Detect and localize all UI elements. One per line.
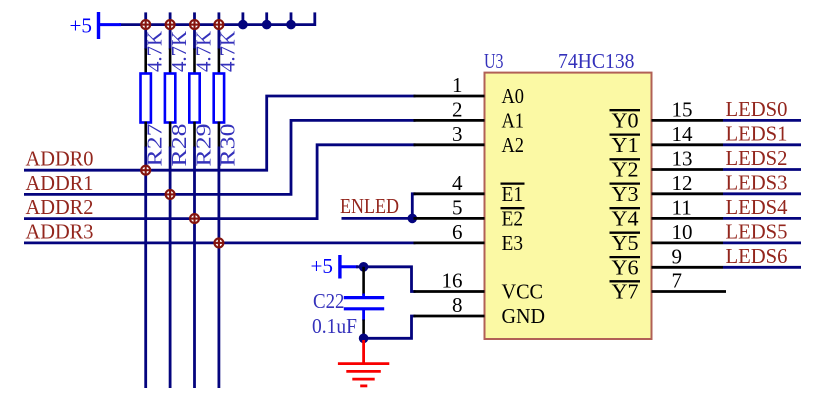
wire LEDS0 bbox=[723, 119, 801, 122]
svg-text:LEDS0: LEDS0 bbox=[726, 97, 788, 121]
pin 14 number bbox=[672, 122, 694, 146]
svg-text:12: 12 bbox=[672, 171, 693, 195]
svg-text:5: 5 bbox=[452, 195, 463, 219]
svg-text:15: 15 bbox=[672, 97, 693, 121]
resistor R28 pin bottom bbox=[169, 122, 172, 148]
svg-text:LEDS1: LEDS1 bbox=[726, 121, 788, 145]
junction marker rail / R29 bbox=[190, 20, 200, 30]
resistor R28 body bbox=[165, 74, 175, 123]
pin 8 wire (left) bbox=[414, 315, 485, 318]
wire LEDS6 bbox=[723, 266, 801, 269]
resistor R27 pin bottom bbox=[144, 122, 147, 148]
pin 9 number bbox=[672, 244, 683, 268]
power symbol +5 (capacitor) bbox=[311, 254, 359, 278]
wire stub and junction dot on rail x=266.7 bbox=[262, 12, 272, 29]
pin 11 wire (right) bbox=[652, 217, 724, 220]
pin 6 number bbox=[452, 220, 463, 244]
pin name Y0 with overline bbox=[610, 109, 641, 133]
junction dot ENLED bbox=[408, 214, 418, 224]
pin 4 wire (left) bbox=[414, 192, 485, 195]
wire stub and junction dot on rail x=291.0 bbox=[286, 12, 296, 29]
ground symbol bbox=[338, 340, 389, 386]
pin name GND bbox=[502, 304, 546, 328]
wire capacitor bottom to GND pin bbox=[364, 316, 416, 338]
junction marker rail / R28 bbox=[165, 20, 175, 30]
svg-text:C22: C22 bbox=[313, 289, 345, 313]
resistor R27 body bbox=[141, 74, 151, 123]
svg-text:14: 14 bbox=[672, 122, 694, 146]
net label LEDS3 bbox=[726, 170, 788, 194]
junction dot capacitor bottom bbox=[359, 334, 369, 344]
pin 9 wire (right) bbox=[652, 266, 724, 269]
pin 10 number bbox=[672, 220, 693, 244]
wire resistor R30 down to bottom bbox=[217, 147, 220, 389]
svg-text:VCC: VCC bbox=[502, 280, 544, 304]
pin 15 number bbox=[672, 97, 693, 121]
svg-text:Y0: Y0 bbox=[612, 109, 639, 133]
wire resistor R27 down to bottom bbox=[144, 147, 147, 389]
designator label R28 bbox=[167, 124, 191, 167]
wire ENLED up to pin 4 bbox=[412, 194, 415, 219]
resistor R29 body bbox=[189, 74, 199, 123]
capacitor C22 pin bottom bbox=[362, 320, 365, 339]
value label 4.7K R28 bbox=[167, 31, 191, 72]
svg-text:LEDS6: LEDS6 bbox=[726, 244, 788, 268]
wire stub and junction dot on rail x=242.9 bbox=[238, 12, 248, 29]
resistor R29 pin top bbox=[193, 49, 196, 75]
pin name Y5 with overline bbox=[610, 231, 641, 255]
wire rail-to-resistor col 1 bbox=[144, 25, 147, 50]
wire stub above rail col 3 bbox=[193, 12, 196, 24]
svg-text:0.1uF: 0.1uF bbox=[312, 314, 357, 338]
pin 6 wire (left) bbox=[414, 241, 485, 244]
net label LEDS5 bbox=[726, 220, 788, 244]
power +5 top rail wire bbox=[119, 12, 315, 26]
pin name Y4 with overline bbox=[610, 207, 641, 231]
svg-text:4.7K: 4.7K bbox=[167, 31, 191, 72]
svg-text:13: 13 bbox=[672, 147, 693, 171]
value label 4.7K R27 bbox=[143, 31, 167, 72]
pin 11 number bbox=[672, 195, 692, 219]
svg-text:16: 16 bbox=[442, 269, 463, 293]
pin name Y2 with overline bbox=[610, 158, 641, 182]
junction marker rail / R30 bbox=[214, 20, 224, 30]
svg-text:LEDS2: LEDS2 bbox=[726, 146, 788, 170]
wire resistor R29 down to bottom bbox=[193, 147, 196, 389]
wire LEDS4 bbox=[723, 217, 801, 220]
pin name E3 bbox=[502, 231, 524, 255]
pin 3 wire (left) bbox=[414, 143, 485, 146]
wire rail-to-resistor col 3 bbox=[193, 25, 196, 50]
designator label C22 bbox=[313, 289, 345, 313]
svg-text:Y2: Y2 bbox=[612, 158, 639, 182]
svg-text:LEDS3: LEDS3 bbox=[726, 170, 788, 194]
pin 8 number bbox=[452, 293, 463, 317]
svg-text:6: 6 bbox=[452, 220, 463, 244]
pin name E2 bbox=[501, 207, 525, 231]
pin name Y3 with overline bbox=[610, 182, 641, 206]
svg-text:4: 4 bbox=[452, 171, 463, 195]
pin name Y7 with overline bbox=[610, 280, 641, 304]
pin name A2 bbox=[502, 133, 525, 157]
pin name A0 bbox=[502, 84, 525, 108]
net label LEDS6 bbox=[726, 244, 788, 268]
resistor R29 pin bottom bbox=[193, 122, 196, 148]
capacitor C22 plates bbox=[344, 294, 384, 321]
wire stub above rail col 2 bbox=[169, 12, 172, 24]
svg-text:U3: U3 bbox=[484, 49, 504, 73]
pin 7 wire (right) bbox=[652, 290, 727, 293]
designator label R27 bbox=[143, 124, 167, 167]
net label ENLED bbox=[340, 194, 399, 218]
net label LEDS4 bbox=[726, 195, 788, 219]
svg-text:8: 8 bbox=[452, 293, 463, 317]
pin 4 number bbox=[452, 171, 463, 195]
svg-text:Y3: Y3 bbox=[612, 182, 639, 206]
wire LEDS1 bbox=[723, 143, 801, 146]
pin 1 number bbox=[452, 73, 463, 97]
wire ADDR2 bbox=[24, 145, 416, 219]
svg-text:Y7: Y7 bbox=[612, 280, 639, 304]
net label ADDR0 bbox=[26, 147, 94, 171]
svg-text:GND: GND bbox=[502, 304, 546, 328]
value label 4.7K R29 bbox=[191, 31, 215, 72]
pin 2 number bbox=[452, 97, 463, 121]
svg-text:+5: +5 bbox=[311, 254, 334, 278]
svg-text:E2: E2 bbox=[502, 207, 524, 231]
svg-text:10: 10 bbox=[672, 220, 693, 244]
junction marker rail / R27 bbox=[141, 20, 151, 30]
pin name VCC bbox=[502, 280, 544, 304]
net label LEDS2 bbox=[726, 146, 788, 170]
designator label U3 bbox=[484, 49, 504, 73]
resistor R30 pin top bbox=[218, 49, 221, 75]
pin 16 number bbox=[442, 269, 463, 293]
svg-text:ADDR2: ADDR2 bbox=[26, 195, 94, 219]
designator label R30 bbox=[216, 123, 240, 166]
wire rail-to-resistor col 2 bbox=[169, 25, 172, 50]
net label LEDS0 bbox=[726, 97, 788, 121]
svg-text:Y1: Y1 bbox=[612, 133, 639, 157]
pin name E1 bbox=[501, 182, 525, 206]
svg-text:ADDR3: ADDR3 bbox=[26, 219, 94, 243]
svg-text:E1: E1 bbox=[502, 182, 524, 206]
svg-text:+5: +5 bbox=[70, 14, 93, 38]
wire ADDR0 bbox=[24, 96, 416, 170]
svg-text:74HC138: 74HC138 bbox=[558, 49, 635, 73]
resistor R30 pin bottom bbox=[218, 122, 221, 148]
net label ADDR3 bbox=[26, 219, 94, 243]
svg-text:Y5: Y5 bbox=[612, 231, 639, 255]
svg-text:LEDS4: LEDS4 bbox=[726, 195, 788, 219]
pin name Y1 with overline bbox=[610, 133, 641, 157]
svg-text:9: 9 bbox=[672, 244, 683, 268]
resistor R28 pin top bbox=[169, 49, 172, 75]
pin 5 wire (left) bbox=[414, 217, 485, 220]
op IC U3 74HC138 body bbox=[485, 73, 652, 339]
pin 13 number bbox=[672, 147, 693, 171]
wire +5 to VCC riser bbox=[356, 267, 416, 292]
pin 2 wire (left) bbox=[414, 119, 485, 122]
wire ADDR3 bbox=[24, 241, 416, 244]
part type label 74HC138 bbox=[558, 49, 635, 73]
pin 12 number bbox=[672, 171, 693, 195]
svg-text:ENLED: ENLED bbox=[340, 194, 399, 218]
value label 0.1uF bbox=[312, 314, 357, 338]
junction marker ADDR2 / R29 bbox=[190, 214, 200, 224]
designator label R29 bbox=[191, 124, 215, 167]
svg-text:1: 1 bbox=[452, 73, 463, 97]
wire LEDS5 bbox=[723, 241, 801, 244]
svg-text:11: 11 bbox=[672, 195, 692, 219]
resistor R30 body bbox=[214, 74, 224, 123]
svg-text:4.7K: 4.7K bbox=[191, 31, 215, 72]
svg-text:E3: E3 bbox=[502, 231, 524, 255]
net label ADDR2 bbox=[26, 195, 94, 219]
wire rail-to-resistor col 4 bbox=[217, 25, 220, 50]
svg-text:A2: A2 bbox=[502, 133, 525, 157]
value label 4.7K R30 bbox=[216, 31, 240, 72]
wire ENLED to pin 5 bbox=[342, 217, 416, 220]
junction marker ADDR1 / R28 bbox=[165, 190, 175, 200]
svg-text:4.7K: 4.7K bbox=[216, 31, 240, 72]
pin 1 wire (left) bbox=[414, 95, 485, 98]
pin 5 number bbox=[452, 195, 463, 219]
svg-text:2: 2 bbox=[452, 97, 463, 121]
pin name Y6 with overline bbox=[610, 255, 641, 279]
pin 12 wire (right) bbox=[652, 192, 724, 195]
junction marker ADDR3 / R30 bbox=[214, 238, 224, 248]
svg-text:ADDR1: ADDR1 bbox=[26, 171, 94, 195]
svg-text:Y4: Y4 bbox=[612, 207, 640, 231]
svg-text:7: 7 bbox=[672, 269, 683, 293]
wire stub above rail col 4 bbox=[217, 12, 220, 24]
net label LEDS1 bbox=[726, 121, 788, 145]
power symbol +5 (top) bbox=[70, 12, 122, 39]
pin 14 wire (right) bbox=[652, 143, 724, 146]
wire LEDS3 bbox=[723, 192, 801, 195]
capacitor C22 pin top bbox=[362, 267, 365, 295]
svg-text:3: 3 bbox=[452, 122, 463, 146]
wire LEDS2 bbox=[723, 168, 801, 171]
wire ADDR1 bbox=[24, 120, 416, 194]
pin 3 number bbox=[452, 122, 463, 146]
pin 7 number bbox=[672, 269, 683, 293]
svg-text:A1: A1 bbox=[502, 109, 525, 133]
svg-text:A0: A0 bbox=[502, 84, 525, 108]
pin 10 wire (right) bbox=[652, 241, 724, 244]
pin 13 wire (right) bbox=[652, 168, 724, 171]
pin name A1 bbox=[502, 109, 525, 133]
net label ADDR1 bbox=[26, 171, 94, 195]
resistor R27 pin top bbox=[144, 49, 147, 75]
junction marker ADDR0 / R27 bbox=[141, 165, 151, 175]
junction dot capacitor top bbox=[359, 262, 369, 272]
wire resistor R28 down to bottom bbox=[169, 147, 172, 389]
pin 16 wire (left) bbox=[414, 290, 485, 293]
svg-text:LEDS5: LEDS5 bbox=[726, 220, 788, 244]
svg-text:4.7K: 4.7K bbox=[143, 31, 167, 72]
pin 15 wire (right) bbox=[652, 119, 724, 122]
svg-text:ADDR0: ADDR0 bbox=[26, 147, 94, 171]
wire stub above rail col 1 bbox=[144, 12, 147, 24]
svg-text:Y6: Y6 bbox=[612, 255, 639, 279]
